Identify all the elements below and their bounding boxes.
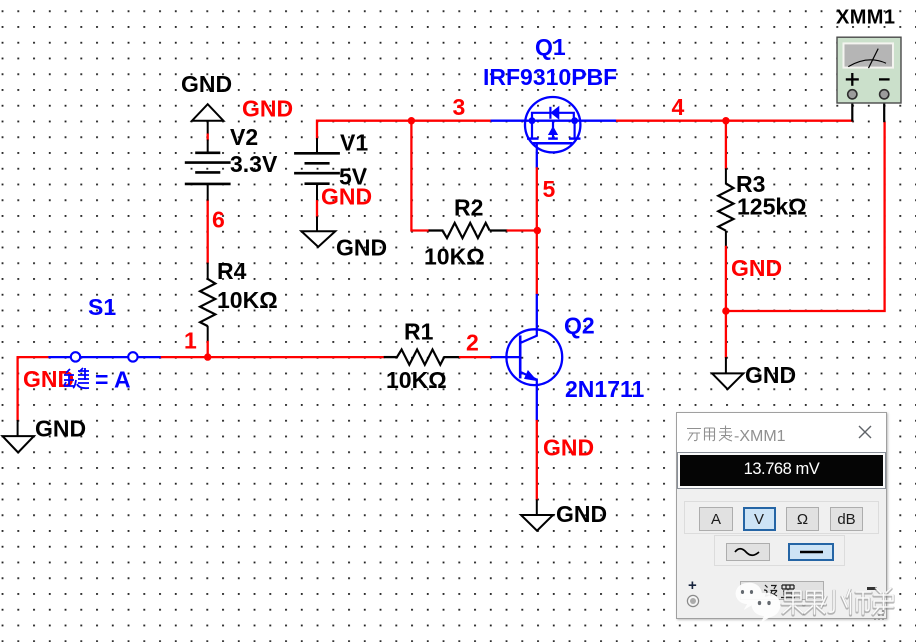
svg-text:GND: GND (242, 96, 293, 122)
glyph 师 (847, 589, 871, 614)
svg-text:4: 4 (672, 94, 685, 120)
glyph 弟 (873, 589, 893, 615)
wire: V1 top corner to node 3 rail (red left part) (317, 121, 492, 139)
glyph 果 (804, 591, 826, 614)
wire: R2 branch from node 3 (411, 121, 429, 231)
svg-text:= A: = A (95, 367, 131, 393)
dialog group frame (coupling buttons) (714, 535, 845, 566)
dialog resize grip (873, 609, 885, 621)
svg-text:2N1711: 2N1711 (565, 376, 645, 402)
dialog display readout (678, 453, 885, 488)
svg-text:GND: GND (543, 435, 594, 461)
node junction 4 (R3 tap) (722, 117, 729, 124)
switch S1 (71, 352, 80, 361)
svg-text:125kΩ: 125kΩ (737, 194, 807, 220)
svg-text:3.3V: 3.3V (230, 151, 278, 177)
resistor R4 (200, 279, 215, 326)
transistor Q1 IRF9310PBF (P-MOSFET) (525, 97, 581, 153)
svg-text:R2: R2 (454, 195, 483, 221)
wire: node 2 blue segment into Q2 base (491, 356, 521, 358)
svg-text:6: 6 (212, 207, 225, 233)
svg-text:IRF9310PBF: IRF9310PBF (483, 64, 617, 90)
button AC (sine) (726, 543, 770, 561)
dialog close button (858, 425, 872, 439)
wire: node 1 red segment (switch to R1) (161, 356, 385, 358)
svg-text:GND: GND (731, 255, 782, 281)
wire: node 2 red segment (459, 356, 492, 358)
ground (bottom left) (3, 436, 34, 452)
radio button (686, 594, 700, 608)
resistor R1 (384, 356, 398, 358)
wire: switch blue segment (48, 356, 161, 358)
glyph 师 (847, 590, 871, 615)
resistor R3 (718, 184, 733, 231)
wire: main horizontal net (node GND/A) left red segment (17, 356, 50, 358)
button V (selected) (743, 507, 776, 531)
glyph 果 (782, 591, 804, 614)
dialog title text 万用表-XMM1 (677, 413, 884, 452)
ground (below R3) (712, 373, 743, 389)
svg-text:R1: R1 (404, 319, 434, 345)
battery V1 5V (316, 138, 318, 153)
label 键 = A (blue key binding) (64, 369, 75, 386)
svg-text:10KΩ: 10KΩ (217, 287, 278, 313)
wire: bottom-left GND riser (16, 357, 18, 421)
svg-text:Q2: Q2 (564, 313, 595, 339)
svg-text:GND: GND (556, 501, 607, 527)
wire: V2 branch / node 6 (207, 200, 209, 264)
button A (699, 507, 733, 531)
watermark WeChat bubbles (725, 580, 916, 625)
button dB (830, 507, 863, 531)
svg-text:V2: V2 (230, 124, 258, 150)
multimeter XMM1 icon (837, 37, 901, 122)
svg-text:10KΩ: 10KΩ (424, 244, 485, 270)
svg-text:V1: V1 (340, 130, 368, 156)
svg-text:-XMM1: -XMM1 (734, 428, 786, 445)
svg-text:1: 1 (184, 328, 197, 354)
ground (below V1) (301, 231, 335, 247)
wire: node 4 red segment (615, 120, 853, 122)
wire: R2 to node 5 junction (507, 229, 538, 231)
wire: R3 branch from node 4 (725, 121, 727, 170)
glyph 小 (821, 590, 847, 612)
ground (top, flipped, above V2) (192, 104, 223, 121)
svg-text:GND: GND (181, 71, 232, 97)
glyph 弟 (873, 588, 893, 614)
node junction 3 (V1/R2) (408, 117, 415, 124)
svg-text:S1: S1 (88, 294, 116, 320)
button Ω (786, 507, 819, 531)
svg-text:GND: GND (336, 235, 387, 261)
wire: V1 minus to ground (316, 200, 318, 217)
wire: tiny red segment V2 minus to ground (207, 134, 209, 141)
wire: R3 to GND junction (725, 246, 727, 358)
wire: multimeter minus lead down to junction (726, 122, 885, 311)
node junction GND net (R3 bottom) (722, 307, 729, 314)
svg-text:GND: GND (321, 184, 372, 210)
multimeter dialog window 万用表-XMM1 (676, 412, 887, 619)
battery V2 3.3V (195, 152, 220, 155)
wire: node 3 blue segment through Q1 (491, 120, 616, 122)
glyph 果 (804, 592, 826, 615)
glyph 小 (821, 591, 847, 613)
svg-text:XMM1: XMM1 (836, 7, 895, 29)
node junction 5 (R2/gate) (534, 227, 541, 234)
transistor Q2 2N1711 (NPN) (506, 329, 562, 385)
wire: Q2 emitter to ground (536, 385, 538, 421)
glyph 果 (782, 592, 804, 615)
svg-text:R4: R4 (217, 258, 247, 284)
svg-text:10KΩ: 10KΩ (386, 367, 447, 393)
node junction 1 (204, 353, 211, 360)
svg-text:3: 3 (453, 94, 466, 120)
dialog title bar (677, 413, 886, 452)
svg-text:2: 2 (466, 330, 479, 356)
label - probe (867, 587, 877, 590)
svg-text:Q1: Q1 (535, 34, 566, 60)
svg-text:GND: GND (35, 416, 86, 442)
resistor R2 (429, 229, 444, 231)
ground (below Q2) (521, 515, 553, 531)
svg-text:GND: GND (745, 362, 796, 388)
button DC (selected) (788, 543, 834, 561)
wire: node 5 vertical (Q1 gate to Q2 collector) (536, 152, 538, 169)
label + probe (688, 577, 697, 594)
dialog group frame (mode buttons) (684, 501, 879, 534)
设置 button glyphs (762, 582, 802, 599)
button 设置 (settings) (740, 581, 824, 600)
svg-text:5: 5 (543, 176, 556, 202)
svg-text:GND: GND (23, 366, 74, 392)
